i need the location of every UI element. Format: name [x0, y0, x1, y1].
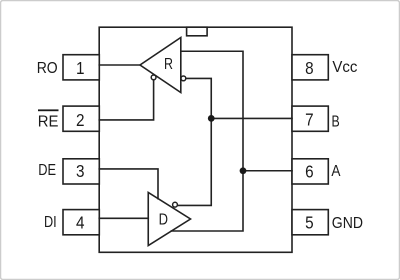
receiver enable bubble — [151, 75, 156, 80]
package notch — [187, 27, 208, 36]
wire net A: junction to pin 6 — [243, 170, 292, 172]
IC body U1 — [99, 27, 292, 252]
svg-text:A: A — [331, 163, 340, 180]
svg-text:RE: RE — [38, 113, 59, 130]
svg-text:8: 8 — [305, 58, 314, 78]
svg-text:3: 3 — [76, 161, 85, 181]
wire RE: pin2 to receiver enable bubble — [99, 80, 153, 120]
svg-text:2: 2 — [76, 110, 85, 130]
RE overline — [38, 109, 59, 111]
D inverted output bubble — [173, 202, 178, 207]
svg-text:7: 7 — [305, 110, 314, 130]
svg-text:DI: DI — [44, 214, 57, 231]
junction node B — [208, 115, 215, 122]
wire net B: junction to pin 7 — [211, 117, 292, 119]
pin 4 box — [63, 210, 99, 235]
svg-text:5: 5 — [305, 212, 314, 232]
wire net A: R top input down to driver output — [171, 51, 243, 231]
pin 7 box — [292, 106, 328, 131]
svg-text:6: 6 — [305, 162, 314, 182]
svg-text:RO: RO — [37, 60, 58, 77]
svg-text:DE: DE — [38, 162, 56, 179]
wire DE: pin3 to driver enable on top slant — [99, 169, 158, 199]
svg-text:Vcc: Vcc — [332, 59, 357, 76]
pin 3 box — [63, 159, 99, 184]
svg-text:GND: GND — [332, 215, 363, 232]
svg-text:R: R — [164, 56, 173, 73]
R inverting input bubble — [181, 76, 186, 81]
wire DI: pin4 to D input — [99, 217, 148, 219]
pin 8 box — [292, 55, 328, 80]
pin 6 box — [292, 159, 328, 184]
svg-text:D: D — [159, 212, 168, 229]
svg-text:4: 4 — [76, 213, 85, 233]
wire net B: R inverting input to driver inverted output, vertical — [178, 78, 212, 205]
pin 2 box — [63, 106, 99, 131]
svg-text:B: B — [332, 113, 340, 130]
receiver R triangle — [140, 38, 181, 93]
junction node A — [240, 167, 247, 174]
driver D triangle — [148, 193, 190, 246]
pin 5 box — [292, 210, 328, 235]
svg-text:1: 1 — [76, 58, 85, 78]
pin 1 box — [63, 55, 99, 80]
wire RO: pin1 to R output apex — [99, 64, 140, 66]
